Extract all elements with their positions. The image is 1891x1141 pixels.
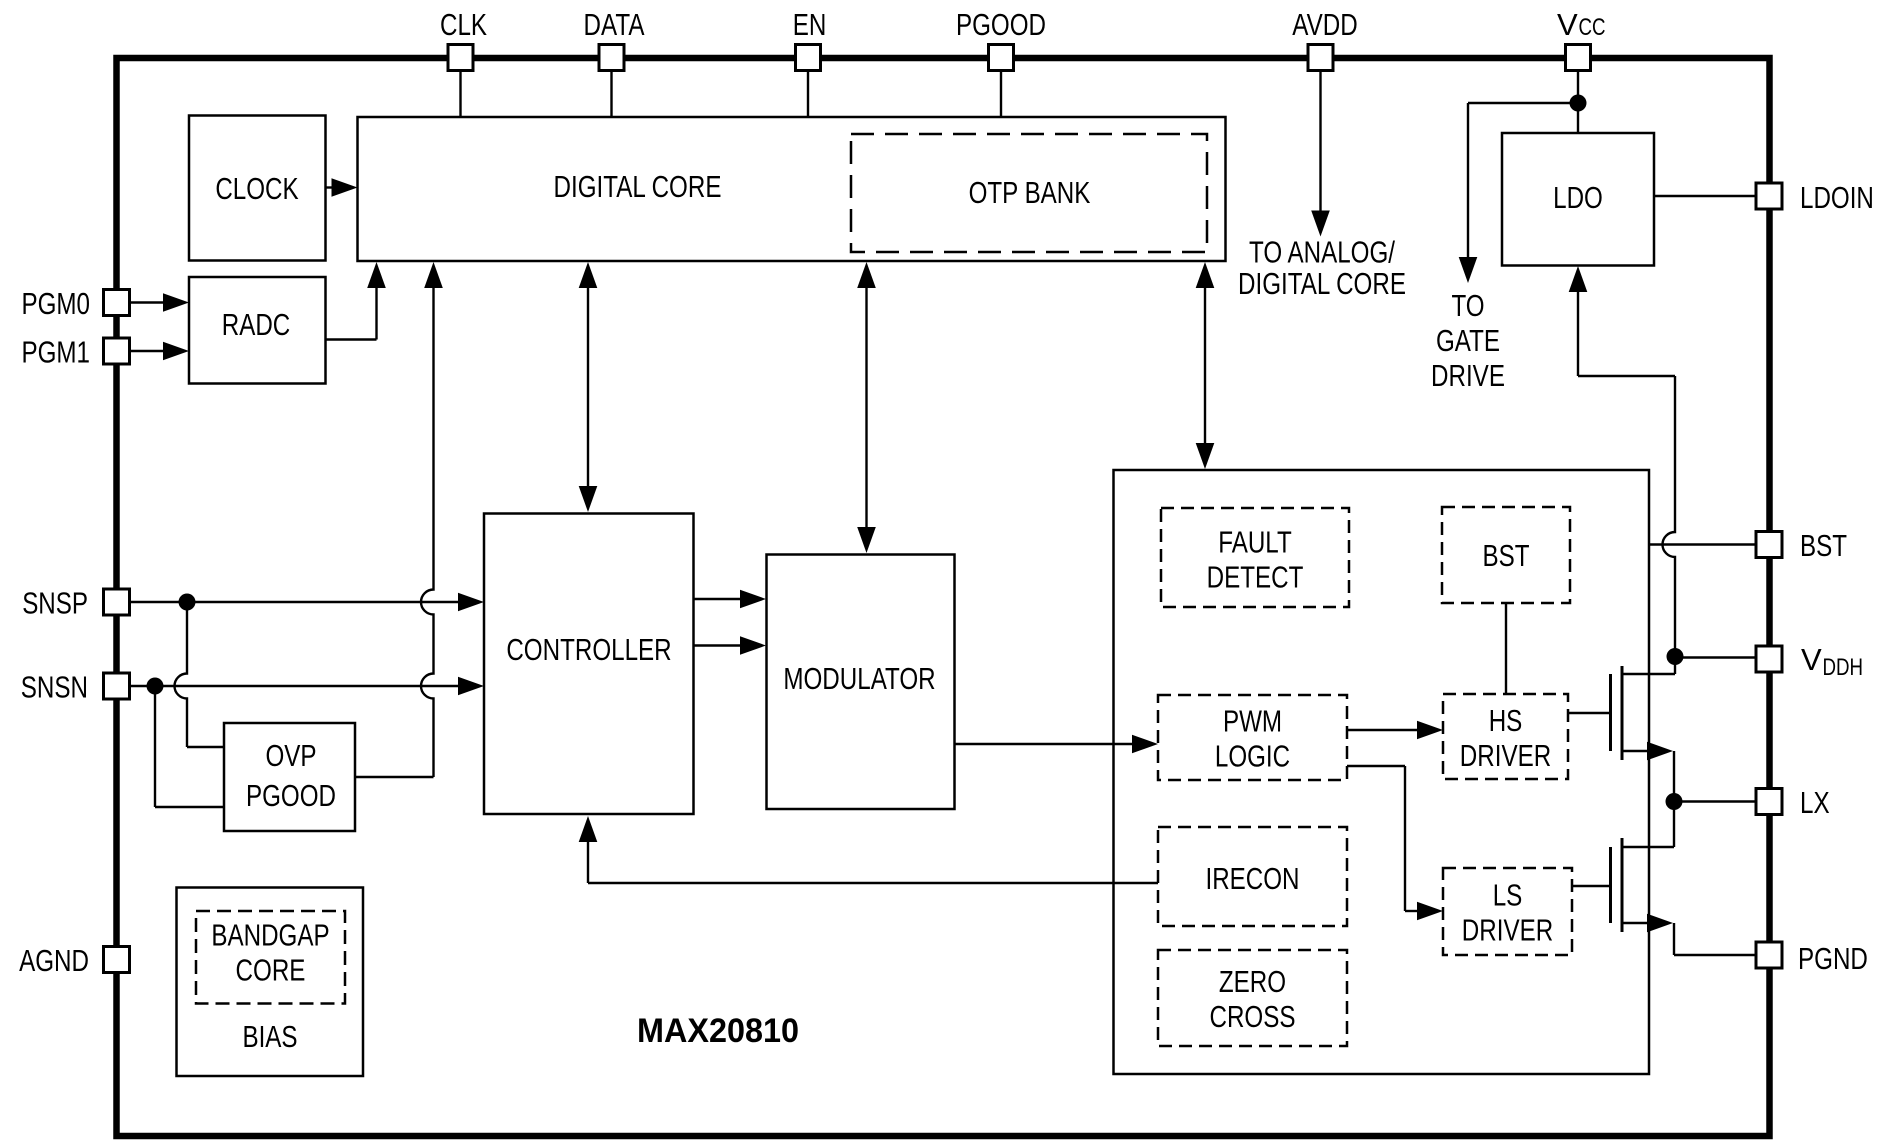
svg-text:BST: BST bbox=[1483, 538, 1530, 573]
svg-text:PGM0: PGM0 bbox=[22, 286, 91, 321]
svg-text:PGOOD: PGOOD bbox=[956, 7, 1046, 42]
svg-text:AGND: AGND bbox=[19, 943, 89, 978]
svg-text:DIGITAL CORE: DIGITAL CORE bbox=[554, 169, 722, 204]
svg-text:LS: LS bbox=[1493, 878, 1523, 913]
svg-text:DDH: DDH bbox=[1823, 654, 1864, 681]
svg-text:DRIVER: DRIVER bbox=[1460, 738, 1551, 773]
svg-text:SNSP: SNSP bbox=[22, 586, 88, 621]
svg-text:DRIVE: DRIVE bbox=[1431, 358, 1505, 393]
svg-text:V: V bbox=[1801, 642, 1822, 677]
svg-text:V: V bbox=[1557, 7, 1578, 42]
svg-text:AVDD: AVDD bbox=[1292, 7, 1357, 42]
svg-text:GATE: GATE bbox=[1436, 323, 1500, 358]
svg-text:LX: LX bbox=[1800, 785, 1830, 820]
svg-text:CLOCK: CLOCK bbox=[215, 171, 299, 206]
svg-text:TO ANALOG/: TO ANALOG/ bbox=[1249, 235, 1395, 270]
svg-text:MAX20810: MAX20810 bbox=[637, 1012, 799, 1050]
svg-text:DETECT: DETECT bbox=[1207, 560, 1304, 595]
svg-text:LDO: LDO bbox=[1553, 180, 1603, 215]
svg-text:BST: BST bbox=[1800, 528, 1847, 563]
svg-text:EN: EN bbox=[793, 7, 827, 42]
svg-text:RADC: RADC bbox=[222, 307, 291, 342]
svg-text:PWM: PWM bbox=[1223, 704, 1282, 739]
svg-text:CROSS: CROSS bbox=[1210, 999, 1296, 1034]
svg-text:FAULT: FAULT bbox=[1218, 525, 1292, 560]
svg-text:BIAS: BIAS bbox=[242, 1019, 297, 1054]
svg-text:HS: HS bbox=[1489, 703, 1523, 738]
svg-text:DATA: DATA bbox=[584, 7, 645, 42]
svg-text:DIGITAL CORE: DIGITAL CORE bbox=[1238, 266, 1406, 301]
svg-text:SNSN: SNSN bbox=[21, 670, 88, 705]
svg-text:DRIVER: DRIVER bbox=[1462, 913, 1553, 948]
svg-text:PGND: PGND bbox=[1798, 941, 1868, 976]
svg-text:OVP: OVP bbox=[265, 738, 316, 773]
svg-text:CC: CC bbox=[1579, 14, 1606, 41]
svg-text:CONTROLLER: CONTROLLER bbox=[506, 632, 671, 667]
svg-text:CORE: CORE bbox=[236, 953, 306, 988]
svg-text:CLK: CLK bbox=[440, 7, 487, 42]
svg-text:ZERO: ZERO bbox=[1219, 964, 1286, 999]
svg-text:BANDGAP: BANDGAP bbox=[211, 918, 329, 953]
svg-text:PGM1: PGM1 bbox=[22, 335, 91, 370]
svg-text:TO: TO bbox=[1451, 288, 1484, 323]
svg-text:LDOIN: LDOIN bbox=[1800, 180, 1874, 215]
svg-text:PGOOD: PGOOD bbox=[246, 778, 336, 813]
svg-text:LOGIC: LOGIC bbox=[1215, 739, 1290, 774]
svg-text:OTP BANK: OTP BANK bbox=[969, 175, 1091, 210]
svg-text:IRECON: IRECON bbox=[1206, 861, 1300, 896]
svg-text:MODULATOR: MODULATOR bbox=[783, 661, 935, 696]
